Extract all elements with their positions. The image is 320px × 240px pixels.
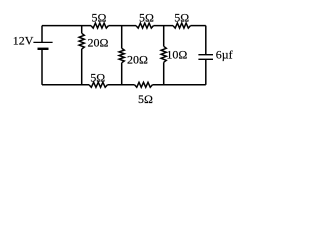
svg-text:12V: 12V [13,33,34,47]
svg-text:5Ω: 5Ω [138,92,153,106]
svg-text:20Ω: 20Ω [127,53,148,67]
svg-text:20Ω: 20Ω [88,35,109,49]
svg-text:5Ω: 5Ω [92,11,107,25]
svg-text:6µf: 6µf [216,48,233,62]
svg-text:5Ω: 5Ω [174,11,189,25]
svg-text:5Ω: 5Ω [139,11,154,25]
svg-text:10Ω: 10Ω [166,47,187,61]
svg-text:5Ω: 5Ω [90,70,105,84]
